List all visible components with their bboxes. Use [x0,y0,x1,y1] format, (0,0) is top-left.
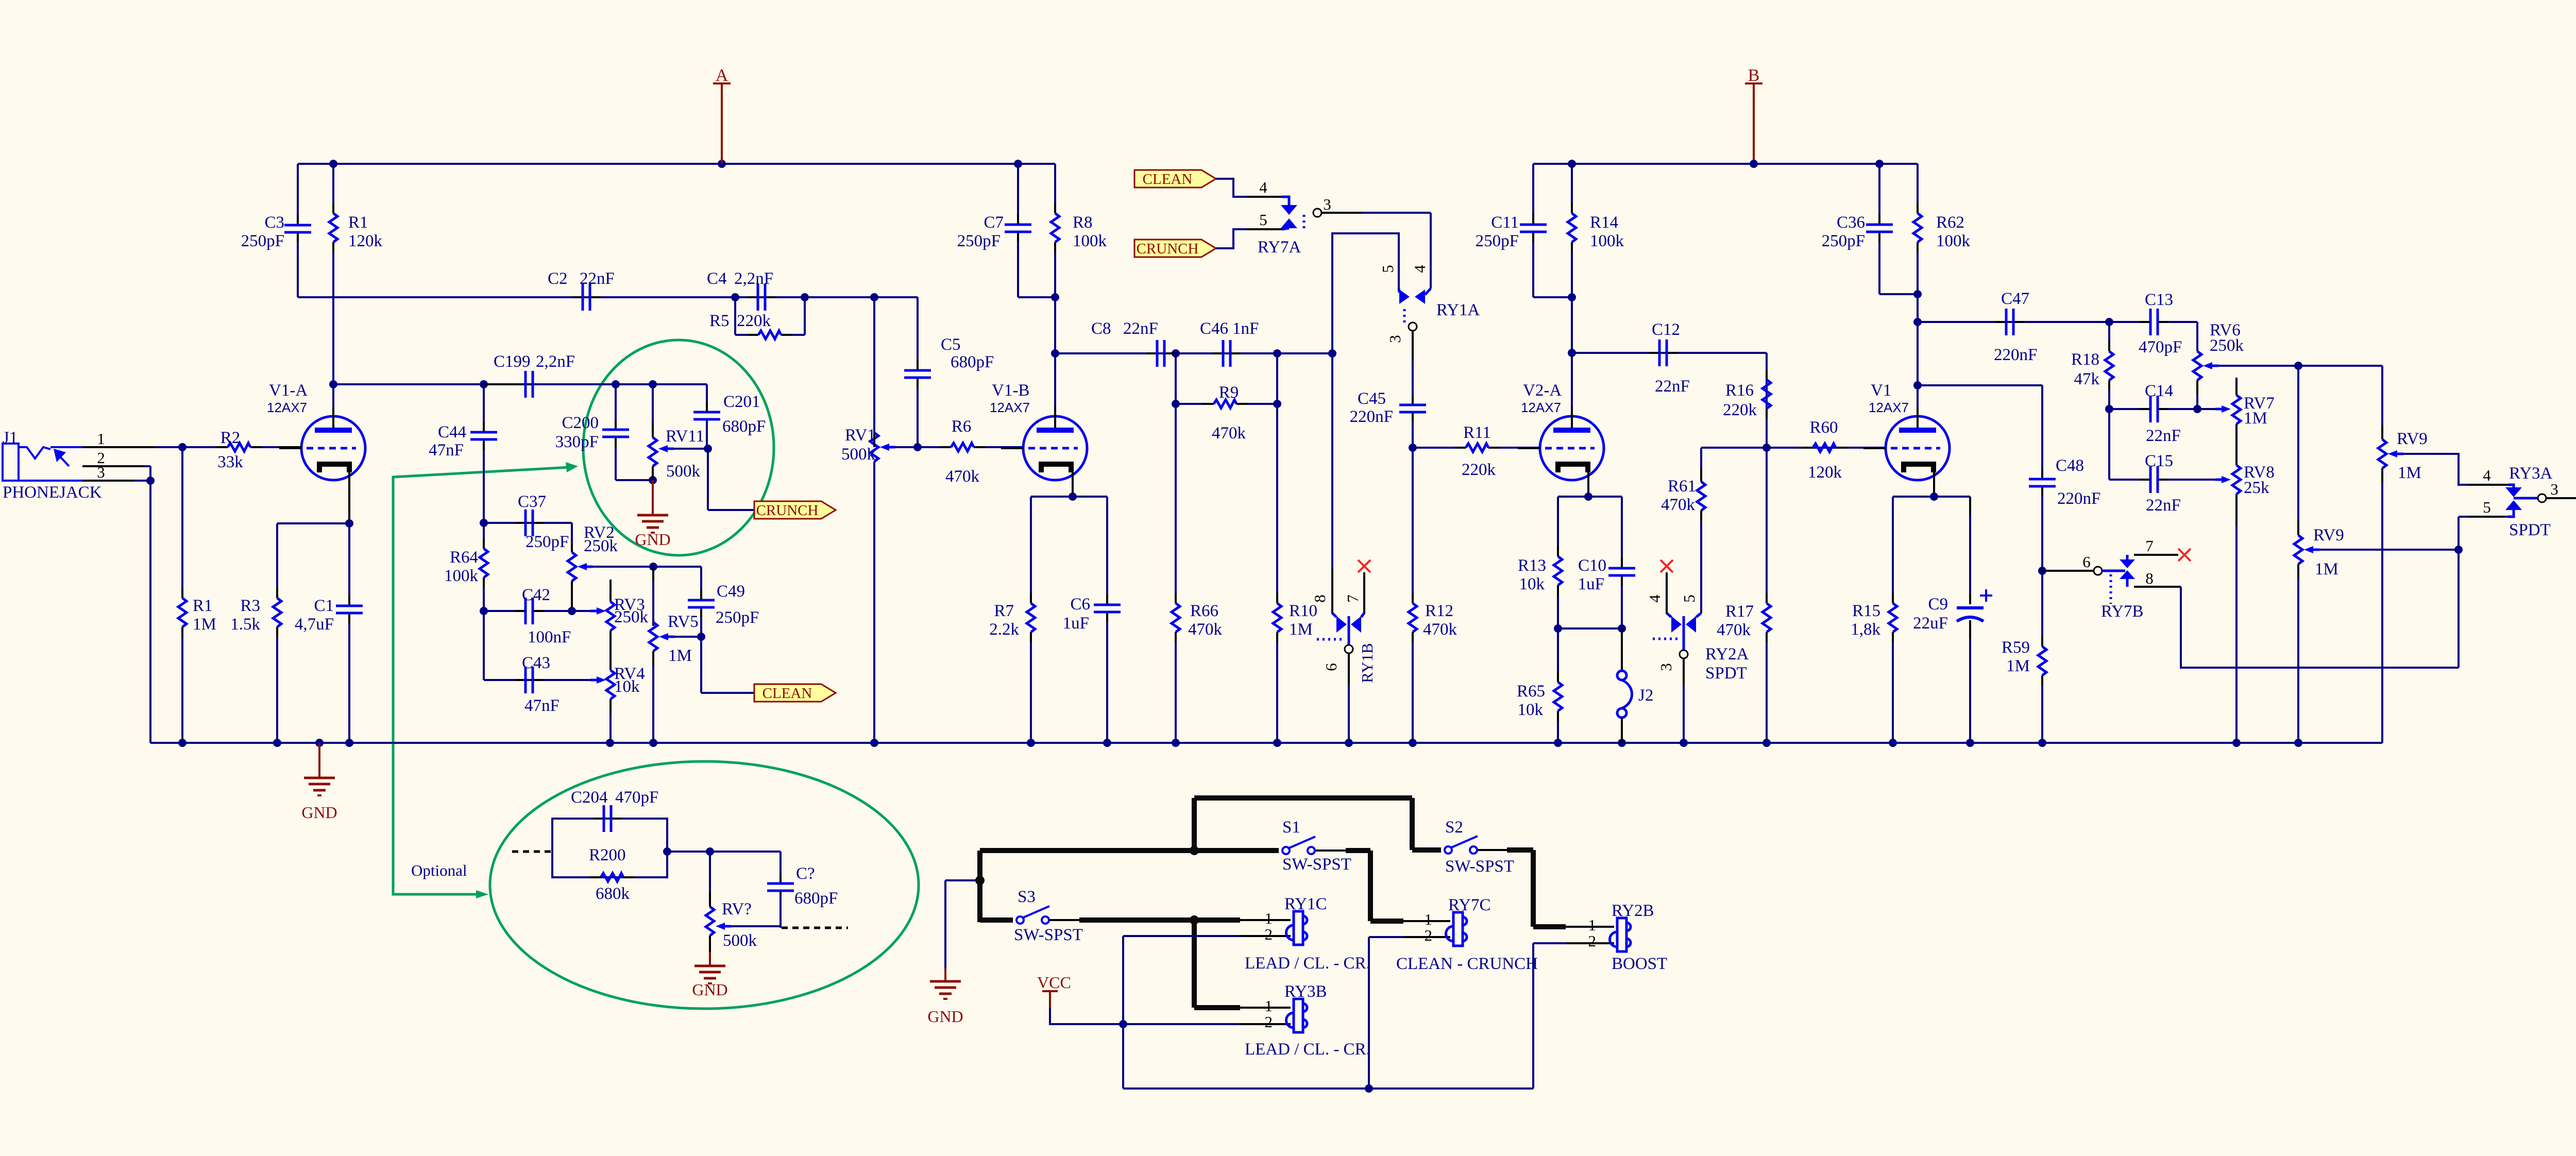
svg-text:3: 3 [1657,663,1675,671]
svg-text:22uF: 22uF [1913,614,1948,633]
svg-text:500k: 500k [666,462,701,481]
svg-text:470pF: 470pF [2139,338,2182,356]
svg-text:C46: C46 [1200,319,1228,338]
svg-text:R62: R62 [1936,213,1964,232]
svg-text:1: 1 [1425,910,1433,928]
svg-text:CLEAN - CRUNCH: CLEAN - CRUNCH [1396,955,1538,973]
svg-text:RY2A: RY2A [1705,645,1749,664]
svg-text:RV?: RV? [722,900,752,919]
svg-text:500k: 500k [841,445,876,464]
svg-text:2,2nF: 2,2nF [536,352,575,371]
svg-text:C12: C12 [1652,320,1680,339]
svg-text:470k: 470k [1212,424,1246,443]
svg-text:CRUNCH: CRUNCH [756,502,819,519]
svg-text:250pF: 250pF [1476,232,1519,250]
svg-text:C6: C6 [1070,595,1090,614]
svg-text:1uF: 1uF [1578,575,1604,593]
svg-text:R6: R6 [952,417,972,436]
svg-text:22nF: 22nF [2146,427,2181,445]
svg-text:C11: C11 [1491,213,1519,232]
svg-text:1.5k: 1.5k [230,615,260,634]
svg-text:680pF: 680pF [951,353,994,371]
svg-text:RY3B: RY3B [1284,982,1327,1001]
svg-text:1M: 1M [2006,657,2030,675]
svg-text:C13: C13 [2145,291,2173,309]
svg-text:33k: 33k [217,453,243,471]
svg-text:S2: S2 [1445,818,1463,837]
svg-text:470pF: 470pF [615,788,658,807]
svg-text:RV9: RV9 [2397,430,2428,448]
svg-text:10k: 10k [614,677,640,696]
svg-text:3: 3 [97,463,105,481]
svg-text:A: A [716,66,728,85]
svg-text:2: 2 [1588,932,1597,950]
svg-text:250pF: 250pF [526,533,569,551]
svg-text:SW-SPST: SW-SPST [1014,926,1083,944]
svg-text:C47: C47 [2001,290,2029,308]
svg-text:RV11: RV11 [666,427,704,446]
svg-text:R3: R3 [240,597,260,615]
svg-text:1,8k: 1,8k [1851,620,1880,639]
svg-text:C36: C36 [1837,213,1865,232]
svg-text:4,7uF: 4,7uF [295,615,334,634]
svg-text:1M: 1M [1289,620,1313,639]
svg-text:1: 1 [1588,916,1597,934]
svg-text:22nF: 22nF [580,269,615,288]
svg-text:C?: C? [796,864,815,883]
svg-text:250pF: 250pF [241,232,284,250]
svg-text:680k: 680k [596,885,630,903]
svg-text:6: 6 [2082,553,2091,571]
svg-text:10k: 10k [1518,701,1544,719]
svg-text:R10: R10 [1289,602,1317,620]
svg-text:C45: C45 [1358,389,1386,408]
svg-text:330pF: 330pF [555,433,599,451]
svg-text:5: 5 [1680,594,1698,603]
svg-text:C4: C4 [707,269,727,288]
svg-text:C5: C5 [941,335,961,354]
svg-text:RY7A: RY7A [1258,238,1301,257]
svg-text:SPDT: SPDT [2509,521,2551,539]
svg-text:SW-SPST: SW-SPST [1445,857,1514,876]
svg-text:22nF: 22nF [1655,377,1690,396]
svg-text:120k: 120k [1808,463,1842,482]
svg-text:2,2nF: 2,2nF [734,269,773,288]
svg-text:R59: R59 [2002,638,2030,657]
svg-text:250k: 250k [2210,336,2244,355]
svg-text:RY1C: RY1C [1284,895,1327,913]
svg-text:GND: GND [927,1007,963,1026]
svg-text:B: B [1748,66,1760,85]
svg-text:R64: R64 [450,548,478,567]
svg-text:1uF: 1uF [1063,614,1089,633]
svg-text:R2: R2 [221,429,241,447]
svg-text:470k: 470k [945,467,980,486]
svg-text:C9: C9 [1928,595,1948,614]
svg-text:12AX7: 12AX7 [1869,400,1909,415]
svg-text:V1: V1 [1871,381,1891,400]
svg-text:S1: S1 [1282,818,1300,837]
svg-text:LEAD / CL. - CR.: LEAD / CL. - CR. [1245,954,1370,973]
svg-text:R18: R18 [2071,350,2099,369]
svg-text:VCC: VCC [1037,973,1071,992]
svg-text:47k: 47k [2074,370,2100,388]
svg-text:250pF: 250pF [716,608,759,627]
svg-text:SPDT: SPDT [1705,664,1747,683]
svg-text:R8: R8 [1073,213,1093,232]
svg-text:250pF: 250pF [957,232,1001,250]
svg-text:5: 5 [1259,211,1267,229]
svg-text:C14: C14 [2145,382,2173,400]
svg-text:C3: C3 [264,213,284,232]
svg-text:1M: 1M [193,615,216,634]
svg-text:8: 8 [1311,594,1329,603]
svg-text:4: 4 [2483,466,2491,484]
svg-text:220nF: 220nF [1994,346,2037,364]
svg-text:6: 6 [1322,663,1340,671]
svg-text:100k: 100k [1590,232,1624,250]
svg-text:C43: C43 [522,654,550,672]
svg-text:C204: C204 [571,788,608,807]
svg-text:1: 1 [1265,997,1273,1015]
svg-text:RY7B: RY7B [2101,602,2144,621]
svg-text:V1-A: V1-A [269,381,308,400]
svg-text:R5: R5 [709,312,730,330]
svg-text:680pF: 680pF [794,889,838,908]
svg-text:7: 7 [2145,537,2154,555]
svg-text:1M: 1M [2398,464,2421,482]
svg-text:C201: C201 [723,393,760,411]
svg-text:R200: R200 [589,846,626,864]
svg-text:RV9: RV9 [2313,526,2344,545]
svg-text:1M: 1M [2315,560,2338,579]
svg-text:R60: R60 [1809,418,1838,437]
svg-text:J2: J2 [1638,686,1653,705]
svg-text:470k: 470k [1423,620,1458,639]
svg-text:3: 3 [1323,195,1331,213]
svg-text:RV1: RV1 [845,426,876,445]
svg-text:8: 8 [2145,569,2154,587]
svg-text:BOOST: BOOST [1612,955,1667,973]
svg-text:V2-A: V2-A [1523,381,1562,400]
svg-text:1M: 1M [2244,409,2267,428]
svg-text:C2: C2 [548,269,568,288]
svg-text:C200: C200 [562,414,599,432]
svg-text:5: 5 [1379,265,1397,273]
svg-text:4: 4 [1259,178,1267,196]
svg-text:C49: C49 [717,582,745,601]
svg-text:C44: C44 [438,423,466,441]
svg-text:C7: C7 [984,213,1004,232]
svg-text:470k: 470k [1717,621,1751,639]
svg-text:680pF: 680pF [722,417,766,436]
svg-text:22nF: 22nF [1123,319,1158,338]
svg-text:1: 1 [97,430,105,448]
svg-text:470k: 470k [1661,496,1696,514]
svg-text:SW-SPST: SW-SPST [1282,855,1351,874]
svg-text:3: 3 [1386,335,1404,343]
svg-text:RY7C: RY7C [1448,896,1491,914]
svg-text:LEAD / CL. - CR.: LEAD / CL. - CR. [1245,1040,1370,1059]
svg-text:R9: R9 [1219,383,1239,402]
svg-text:47nF: 47nF [524,696,560,715]
svg-text:22nF: 22nF [2146,496,2181,515]
svg-text:100nF: 100nF [528,628,571,647]
svg-text:R11: R11 [1463,423,1491,442]
svg-text:120k: 120k [348,232,383,250]
svg-text:100k: 100k [444,567,479,585]
svg-text:CLEAN: CLEAN [762,685,812,702]
svg-text:25k: 25k [2244,479,2269,497]
svg-text:12AX7: 12AX7 [1521,400,1561,415]
svg-text:C199: C199 [494,352,531,371]
svg-text:2: 2 [1425,926,1433,944]
svg-text:R13: R13 [1518,556,1546,575]
svg-text:3: 3 [2550,480,2558,498]
svg-text:220k: 220k [1723,401,1757,419]
svg-text:220k: 220k [737,312,771,330]
svg-text:2: 2 [1265,925,1273,943]
svg-text:4: 4 [1411,265,1429,273]
svg-text:2.2k: 2.2k [989,620,1019,639]
svg-text:1M: 1M [668,647,692,665]
svg-text:1: 1 [1265,909,1273,927]
svg-text:4: 4 [1646,594,1664,603]
svg-text:250pF: 250pF [1822,232,1865,250]
svg-text:R1: R1 [348,213,368,232]
svg-text:C37: C37 [518,492,546,511]
svg-text:R14: R14 [1590,213,1618,232]
svg-text:GND: GND [692,980,727,999]
svg-text:R61: R61 [1668,477,1696,496]
svg-text:10k: 10k [1519,575,1545,593]
svg-text:12AX7: 12AX7 [990,400,1030,415]
svg-text:220nF: 220nF [2057,489,2100,508]
svg-text:C42: C42 [522,586,550,604]
svg-text:C48: C48 [2056,456,2084,475]
svg-text:7: 7 [1344,594,1362,603]
svg-text:RY1B: RY1B [1358,643,1376,683]
svg-text:RV5: RV5 [668,613,699,631]
svg-text:R1: R1 [193,597,213,615]
svg-text:CRUNCH: CRUNCH [1137,241,1199,257]
svg-text:PHONEJACK: PHONEJACK [3,483,102,502]
svg-text:R15: R15 [1852,602,1880,620]
svg-text:R7: R7 [994,602,1014,620]
svg-text:R17: R17 [1725,602,1754,621]
svg-text:RY2B: RY2B [1612,902,1654,920]
svg-text:R66: R66 [1190,602,1218,620]
svg-text:250k: 250k [614,608,649,626]
svg-text:R12: R12 [1425,602,1453,620]
svg-text:500k: 500k [723,931,757,950]
svg-text:RY1A: RY1A [1436,301,1480,319]
svg-text:220k: 220k [1462,461,1496,479]
svg-text:GND: GND [301,803,337,822]
svg-text:100k: 100k [1073,232,1107,250]
svg-text:250k: 250k [584,537,618,555]
svg-text:R16: R16 [1725,381,1754,400]
svg-text:5: 5 [2483,498,2491,516]
svg-text:C8: C8 [1091,319,1111,338]
svg-text:470k: 470k [1188,620,1223,639]
svg-text:R65: R65 [1517,682,1545,701]
svg-text:CLEAN: CLEAN [1143,171,1193,188]
svg-text:C15: C15 [2145,452,2173,470]
svg-text:RY3A: RY3A [2509,464,2553,483]
svg-text:100k: 100k [1936,232,1971,250]
svg-text:Optional: Optional [411,861,467,879]
svg-text:C10: C10 [1578,556,1606,575]
svg-text:GND: GND [635,530,670,549]
svg-text:1nF: 1nF [1232,319,1259,338]
svg-text:C1: C1 [314,597,334,615]
svg-text:12AX7: 12AX7 [267,400,307,415]
svg-text:J1: J1 [3,429,18,447]
svg-text:V1-B: V1-B [992,381,1029,400]
svg-text:47nF: 47nF [429,441,464,460]
svg-text:2: 2 [1265,1013,1273,1031]
svg-text:220nF: 220nF [1350,407,1393,426]
svg-text:S3: S3 [1018,888,1036,906]
